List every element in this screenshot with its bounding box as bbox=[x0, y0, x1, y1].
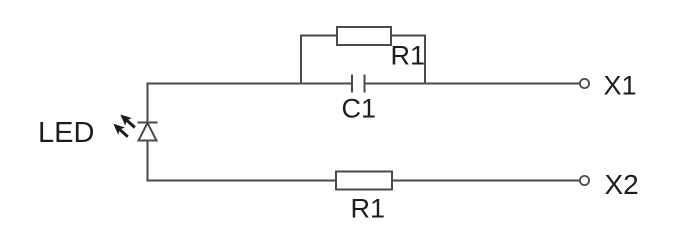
resistor R1 (top, parallel with C1) bbox=[337, 27, 391, 45]
wire branch top right segment bbox=[391, 35, 426, 37]
wire top rail left segment (corner to C1 left plate) bbox=[147, 83, 352, 85]
capacitor C1 left plate bbox=[351, 75, 353, 93]
capacitor C1 right plate bbox=[364, 75, 366, 93]
svg-text:X1: X1 bbox=[604, 71, 637, 101]
wire right riser of parallel branch bbox=[424, 36, 426, 85]
svg-text:C1: C1 bbox=[342, 94, 377, 124]
svg-text:R1: R1 bbox=[351, 194, 386, 224]
wire LED bottom vertical bbox=[147, 141, 149, 182]
wire top-left vertical (LED anode/cathode to top rail) bbox=[147, 84, 149, 123]
terminal X1 circle bbox=[580, 79, 589, 88]
svg-text:LED: LED bbox=[38, 117, 94, 149]
wire branch top left segment bbox=[300, 35, 337, 37]
svg-text:X2: X2 bbox=[605, 169, 639, 200]
resistor R1 (bottom) bbox=[336, 172, 392, 190]
wire bottom rail left segment (LED to R1) bbox=[147, 180, 337, 182]
svg-text:R1: R1 bbox=[391, 41, 426, 71]
LED emission arrow 2 (lower) bbox=[110, 120, 131, 140]
LED D1 cathode bar bbox=[138, 122, 158, 124]
wire top rail right segment (C1 right plate to X1) bbox=[366, 83, 580, 85]
wire bottom rail right segment (R1 to X2) bbox=[392, 180, 580, 182]
wire left riser of parallel branch bbox=[300, 36, 302, 85]
terminal X2 circle bbox=[580, 176, 589, 185]
LED D1 triangle bbox=[139, 123, 157, 141]
LED emission arrow 1 (upper) bbox=[117, 111, 138, 131]
